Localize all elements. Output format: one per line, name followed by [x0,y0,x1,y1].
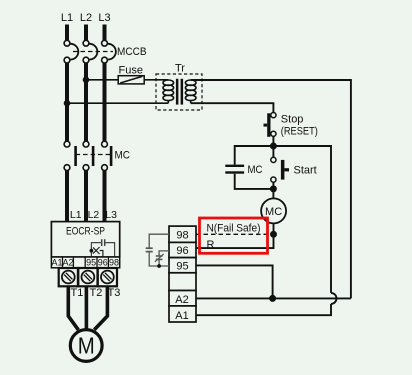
wire hop over A2 [331,293,337,304]
wire A2 to Tr secondary [196,297,351,299]
wire L1 mid [65,63,69,141]
wire fuse to Tr [144,79,168,81]
wire L1 tap to Tr [67,102,168,104]
wire junction to right riser [273,146,331,293]
screw terminal T2 [78,268,97,286]
node snubber junction [157,264,161,268]
EOCR internal capacitor loop [91,239,114,257]
pushbutton Start [271,146,289,189]
svg-text:L2: L2 [80,12,92,24]
wire fuse feed [86,79,118,81]
MCCB pole 2 [83,40,97,63]
node junction below coil [270,231,277,238]
svg-text:A1: A1 [175,310,188,322]
svg-text:Fuse: Fuse [119,65,143,77]
wire T2 to motor [85,286,89,329]
wire L2 top [84,25,88,41]
wire L3 lower [103,171,107,223]
wire T3 to motor [94,286,107,330]
svg-text:R: R [207,239,215,251]
MCCB linkage dashed [73,51,113,53]
screw terminal T3 [98,268,117,286]
wire L2 mid [84,63,88,141]
wire 95 to A2 line [196,265,273,298]
highlight red box [200,218,268,253]
svg-text:96: 96 [176,245,188,257]
coil MC [261,198,286,223]
node junction below Stop [270,143,277,150]
svg-text:Stop: Stop [281,114,304,126]
contactor MC power pole 2 [83,141,93,170]
wire L1 top [65,25,69,41]
svg-text:L3: L3 [98,12,110,24]
transformer Tr [156,74,202,110]
svg-text:MCCB: MCCB [117,46,147,58]
svg-text:(RESET): (RESET) [281,125,318,137]
MC power linkage dashed [76,154,112,156]
wire Tr secondary bottom to Stop [191,103,274,112]
EOCR internal SCR [93,247,103,257]
svg-text:MC: MC [248,164,263,176]
svg-text:Tr: Tr [175,63,185,75]
snubber varistor branch (96 to 95) [155,251,169,266]
wire MC coil to junction [273,223,275,234]
MCCB pole 3 [102,40,116,63]
terminal block 96 [169,242,196,257]
wire A1 [196,304,331,315]
node junction below Start [270,185,277,192]
wire L1 lower [65,171,69,223]
svg-text:98: 98 [176,229,188,241]
wire L2 lower [84,171,88,223]
node junction on L1 (Tr lower tap) [64,100,71,107]
relay EOCR-SP box [51,222,119,257]
svg-text:98: 98 [109,258,119,268]
svg-text:M: M [78,333,95,359]
svg-text:N(Fail Safe): N(Fail Safe) [207,222,261,234]
contactor MC power pole 3 [102,141,112,170]
motor M [70,330,102,362]
contact MC aux (holding) [225,165,244,174]
svg-text:T1: T1 [71,287,84,299]
svg-text:L3: L3 [105,209,117,221]
wire Stop to junction [272,136,274,146]
terminal block A2 [169,291,196,306]
svg-text:A1: A1 [51,258,62,268]
svg-text:95: 95 [176,260,188,272]
svg-text:L2: L2 [88,209,100,221]
fuse F [118,76,144,84]
svg-text:EOCR-SP: EOCR-SP [66,226,105,238]
terminal block 95 [169,258,196,273]
wire N fail-safe dashed (98 to coil) [196,233,271,235]
wire R (96 to coil) [196,234,274,248]
svg-text:T3: T3 [108,287,121,299]
svg-text:L1: L1 [70,209,82,221]
svg-text:MC: MC [115,150,131,162]
svg-text:A2: A2 [62,258,73,268]
wire L3 mid [103,63,107,141]
wire junction to MC aux branch [235,146,274,165]
terminal block 98 [169,226,196,242]
snubber capacitor branch (98 to 95) [146,234,169,266]
svg-text:L1: L1 [61,12,73,24]
contactor MC power pole 1 [64,141,76,170]
EOCR terminal strip [51,257,119,268]
pushbutton Stop (RESET) [264,113,277,137]
svg-text:95: 95 [86,258,96,268]
node junction 95/A2 [269,295,276,302]
wire MC aux bottom [235,174,274,189]
screw terminal T1 [59,268,78,286]
svg-text:Start: Start [294,164,317,176]
terminal block A1 [169,306,196,322]
wire T1 to motor [68,286,78,330]
MCCB pole 1 [64,40,78,63]
EOCR internal junction dot [90,249,94,253]
wire L3 top [103,25,107,41]
svg-text:T2: T2 [90,287,103,299]
svg-text:A2: A2 [175,294,188,306]
wire junction to MC coil [272,189,274,199]
svg-text:96: 96 [98,258,108,268]
node junction on L2 (fuse tap) [83,77,90,84]
wire Tr secondary top to right edge [191,80,351,298]
terminal block blank [169,273,196,291]
svg-text:MC: MC [265,206,282,218]
